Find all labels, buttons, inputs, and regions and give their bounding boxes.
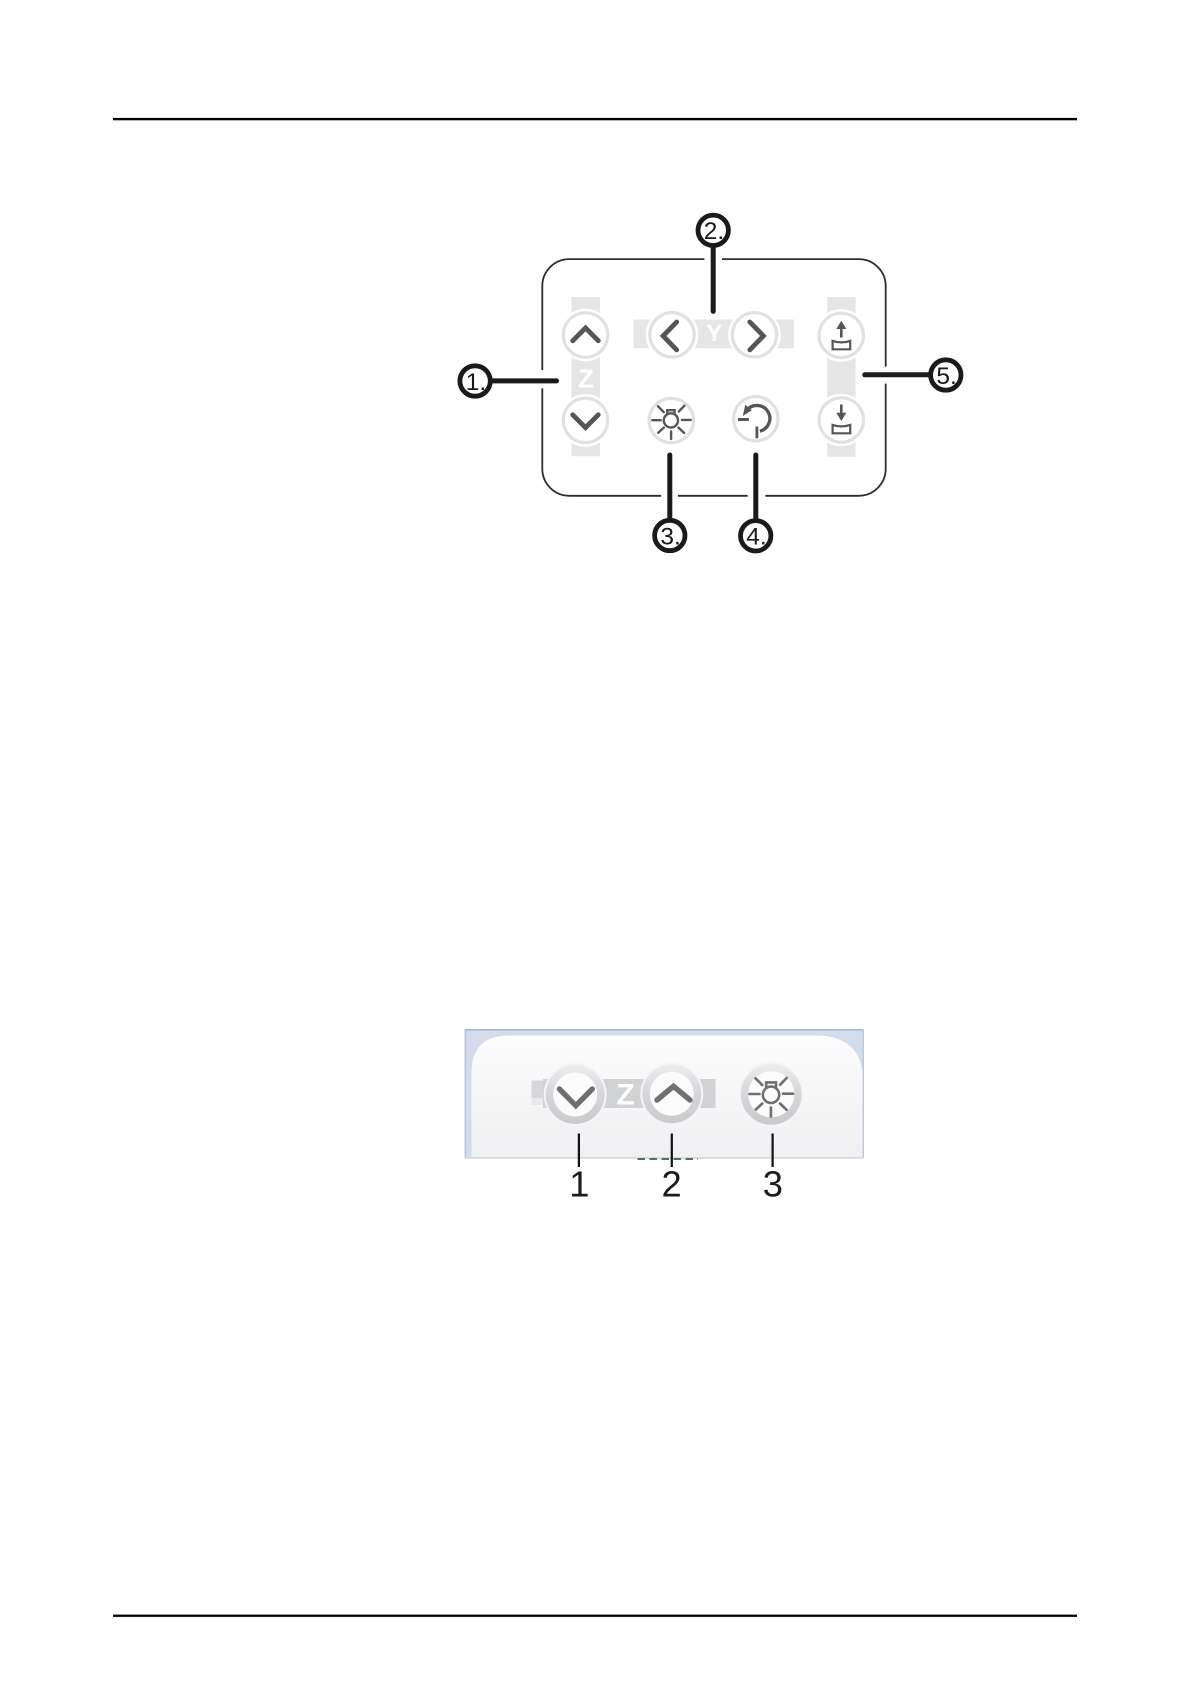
svg-text:1.: 1. <box>466 369 486 396</box>
svg-text:Y: Y <box>706 320 722 346</box>
svg-text:1: 1 <box>569 1163 589 1204</box>
svg-text:3.: 3. <box>660 523 680 550</box>
svg-text:4.: 4. <box>746 524 766 551</box>
svg-text:5.: 5. <box>936 363 956 390</box>
svg-text:Z: Z <box>616 1079 634 1112</box>
svg-text:Z: Z <box>578 363 594 393</box>
svg-text:2: 2 <box>662 1163 682 1204</box>
svg-text:2.: 2. <box>704 218 724 245</box>
svg-text:3: 3 <box>763 1163 783 1204</box>
